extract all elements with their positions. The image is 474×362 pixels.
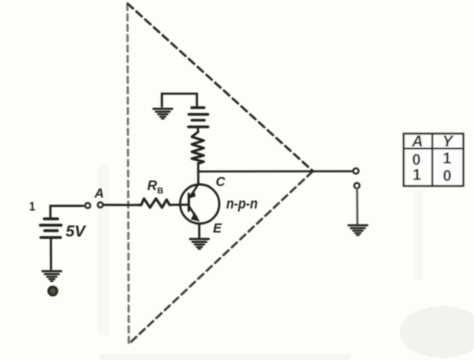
resistor RB [139, 199, 170, 208]
svg-text:E: E [213, 221, 222, 236]
svg-text:n-p-n: n-p-n [226, 196, 258, 212]
input terminal circle left [85, 203, 90, 208]
svg-text:R: R [147, 178, 157, 193]
svg-text:1: 1 [412, 167, 421, 184]
wire output terminal to ground [356, 189, 358, 224]
battery V1 5V [40, 219, 61, 238]
svg-text:B: B [157, 186, 163, 196]
ground (output, right) [349, 225, 368, 235]
transistor base bar [188, 194, 190, 211]
collector arrowhead [189, 191, 196, 199]
inverter triangle left dashed edge [127, 4, 128, 344]
wire battery V1 to input terminal [50, 206, 83, 217]
wire battery to resistor RC [197, 128, 199, 132]
transistor emitter lead [189, 206, 197, 217]
truth table header divider [404, 148, 464, 150]
transistor collector lead [191, 185, 198, 196]
svg-text:1: 1 [29, 202, 36, 214]
terminal dot below ground [48, 286, 57, 295]
svg-text:0: 0 [443, 168, 452, 185]
wire RC to collector node [197, 163, 199, 185]
input terminal circle right [98, 202, 103, 207]
svg-text:A: A [94, 185, 104, 200]
wire battery V1 to ground [50, 239, 52, 269]
inverter triangle top dashed edge [128, 4, 313, 171]
wire switch to RB [103, 204, 139, 206]
ground (emitter) [190, 239, 209, 249]
svg-text:C: C [216, 174, 226, 189]
emitter arrowhead [191, 212, 200, 221]
ground (Vcc return, top left) [153, 109, 172, 119]
output terminal circle lower [354, 183, 359, 188]
transistor Q1 n-p-n [180, 184, 219, 223]
wire from Vcc ground to battery top [162, 94, 197, 107]
svg-text:5V: 5V [66, 223, 87, 240]
resistor RC (collector) [192, 132, 204, 164]
svg-text:Y: Y [442, 133, 454, 150]
truth table column divider [431, 134, 433, 186]
svg-text:1: 1 [443, 151, 452, 168]
wire RB to base [170, 204, 189, 206]
svg-text:A: A [411, 133, 423, 150]
output wire from collector node to terminal [198, 170, 352, 172]
inverter triangle bottom dashed edge [129, 172, 312, 344]
output terminal circle upper [353, 168, 358, 173]
truth table frame [404, 134, 464, 186]
ground (battery V1) [42, 271, 61, 281]
emitter wire to ground [198, 224, 200, 238]
battery VCC (top) [189, 108, 209, 127]
